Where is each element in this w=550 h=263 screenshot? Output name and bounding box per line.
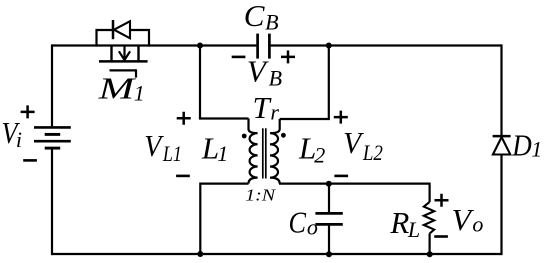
transistor M1 body-diode loop wires — [97, 30, 150, 47]
svg-text:i: i — [16, 127, 22, 152]
plus sign Vi — [21, 105, 35, 118]
svg-text:C: C — [289, 205, 307, 240]
transistor M1 drain stub — [110, 46, 112, 61]
transistor M1 gate bar — [110, 69, 137, 71]
body diode triangle — [114, 21, 130, 38]
transistor M1 body arrow — [119, 46, 130, 60]
transformer Tr core lines — [263, 128, 266, 178]
wire right rail lower — [500, 154, 502, 255]
svg-text:V: V — [247, 54, 269, 89]
wire Co top lead — [328, 184, 330, 213]
minus sign CB — [232, 56, 246, 59]
wire L2 top terminal — [280, 118, 330, 120]
wire top rail left segment — [52, 44, 256, 46]
wire output mid rail — [279, 183, 430, 185]
wire L1 top terminal — [199, 117, 249, 119]
svg-text:o: o — [472, 212, 483, 237]
svg-text:1: 1 — [531, 137, 542, 162]
svg-text:L1: L1 — [162, 141, 182, 166]
node dot mid rail Co — [326, 181, 332, 187]
svg-text:B: B — [265, 10, 278, 35]
svg-text:V: V — [452, 202, 475, 237]
svg-text:r: r — [270, 99, 279, 124]
node dot bottom rail left — [197, 251, 203, 257]
transformer Tr secondary winding L2 — [270, 119, 280, 184]
svg-text:V: V — [144, 128, 164, 163]
voltage source Vi battery plates — [34, 127, 71, 148]
svg-text:1: 1 — [134, 81, 145, 106]
svg-text:2: 2 — [314, 142, 325, 167]
node dot bottom rail RL — [427, 251, 433, 257]
wire right rail upper — [500, 44, 502, 136]
wire bottom rail — [52, 253, 502, 255]
transistor M1 source stub — [137, 46, 139, 61]
svg-text:L: L — [407, 217, 420, 242]
wire RL top lead — [429, 183, 431, 203]
plus sign VL1 — [177, 112, 191, 125]
minus sign Vi — [23, 159, 37, 162]
wire Co bottom lead — [328, 225, 330, 254]
svg-text:C: C — [244, 0, 265, 33]
svg-text:1:N: 1:N — [245, 185, 277, 204]
svg-text:D: D — [511, 127, 531, 162]
wire node A drop — [199, 46, 201, 119]
node dot top rail right — [326, 43, 332, 49]
minus sign VL1 — [176, 175, 190, 178]
node dot top rail left — [197, 43, 203, 49]
transistor M1 channel bar — [99, 60, 148, 63]
wire RL bottom lead — [429, 234, 431, 255]
wire left rail lower — [51, 148, 53, 255]
wire left rail upper — [51, 44, 53, 126]
transformer polarity dot secondary — [281, 133, 286, 138]
wire L1 bottom drop — [199, 183, 201, 255]
svg-text:V: V — [343, 125, 364, 160]
transformer Tr primary winding L1 — [249, 119, 258, 184]
diode D1 triangle — [493, 137, 510, 154]
transformer polarity dot primary — [242, 134, 247, 139]
plus sign VL2 — [334, 111, 348, 124]
wire node B drop — [328, 46, 330, 120]
diode D1 cathode bar — [493, 135, 511, 138]
transistor M1 gate hook — [135, 69, 137, 77]
svg-text:o: o — [307, 214, 318, 239]
capacitor Co plates — [315, 213, 342, 224]
minus sign VL2 — [334, 175, 348, 178]
resistor RL zigzag — [424, 202, 434, 234]
capacitor CB plates — [258, 34, 270, 59]
wire L1 bottom terminal — [200, 183, 248, 185]
svg-text:R: R — [389, 205, 409, 240]
plus sign Vo — [435, 194, 449, 207]
svg-text:1: 1 — [217, 141, 228, 166]
svg-text:L2: L2 — [362, 140, 383, 165]
svg-text:B: B — [269, 66, 282, 91]
minus sign Vo — [434, 235, 448, 238]
wire top rail right segment — [271, 44, 502, 46]
node dot bottom rail Co — [326, 251, 332, 257]
svg-text:M: M — [97, 71, 137, 106]
plus sign CB — [281, 50, 295, 63]
body diode cathode bar — [112, 20, 115, 39]
